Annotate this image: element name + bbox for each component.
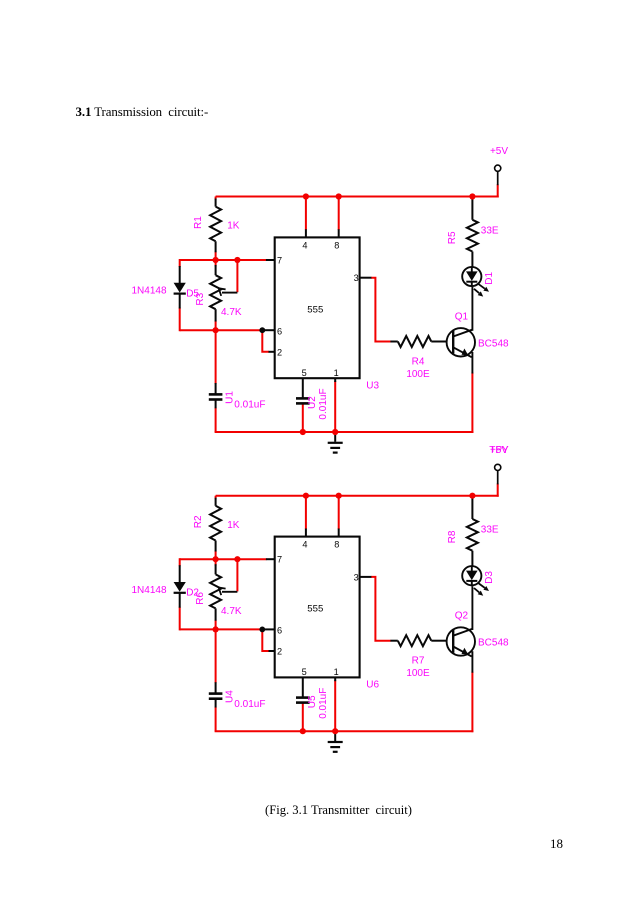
svg-text:TPY: TPY xyxy=(489,445,509,456)
svg-text:6: 6 xyxy=(277,626,282,636)
svg-text:U5: U5 xyxy=(307,695,318,708)
svg-text:U3: U3 xyxy=(366,381,379,392)
svg-text:4.7K: 4.7K xyxy=(221,307,242,318)
svg-text:R2: R2 xyxy=(193,515,204,528)
svg-text:4.7K: 4.7K xyxy=(221,606,242,617)
svg-text:Q2: Q2 xyxy=(455,611,469,622)
svg-text:D1: D1 xyxy=(484,271,495,284)
svg-text:33E: 33E xyxy=(481,225,499,236)
svg-text:2: 2 xyxy=(277,347,282,357)
svg-text:D3: D3 xyxy=(484,571,495,584)
svg-text:8: 8 xyxy=(334,240,339,250)
svg-text:+5V: +5V xyxy=(490,146,508,157)
svg-text:2: 2 xyxy=(277,647,282,657)
svg-text:4: 4 xyxy=(302,240,307,250)
svg-text:555: 555 xyxy=(307,604,323,615)
svg-text:1K: 1K xyxy=(227,520,240,531)
svg-text:1: 1 xyxy=(334,667,339,677)
svg-text:8: 8 xyxy=(334,540,339,550)
svg-text:R5: R5 xyxy=(447,231,458,244)
svg-text:4: 4 xyxy=(302,540,307,550)
svg-text:R3: R3 xyxy=(195,292,206,305)
svg-text:5: 5 xyxy=(302,368,307,378)
svg-text:R1: R1 xyxy=(193,216,204,229)
svg-text:7: 7 xyxy=(277,255,282,265)
svg-text:7: 7 xyxy=(277,555,282,565)
svg-text:U6: U6 xyxy=(366,680,379,691)
svg-text:3: 3 xyxy=(354,273,359,283)
svg-text:R8: R8 xyxy=(447,530,458,543)
svg-text:1: 1 xyxy=(334,368,339,378)
svg-text:1N4148: 1N4148 xyxy=(132,585,167,596)
svg-text:0.01uF: 0.01uF xyxy=(234,400,265,411)
svg-text:R6: R6 xyxy=(195,592,206,605)
svg-text:33E: 33E xyxy=(481,525,499,536)
svg-text:1K: 1K xyxy=(227,221,240,232)
svg-text:U2: U2 xyxy=(307,396,318,409)
svg-text:BC548: BC548 xyxy=(478,638,509,649)
svg-text:Q1: Q1 xyxy=(455,311,469,322)
svg-text:1N4148: 1N4148 xyxy=(132,286,167,297)
svg-text:R4: R4 xyxy=(412,356,425,367)
svg-text:BC548: BC548 xyxy=(478,338,509,349)
svg-text:100E: 100E xyxy=(406,668,430,679)
svg-text:555: 555 xyxy=(307,304,323,315)
svg-text:6: 6 xyxy=(277,326,282,336)
svg-text:0.01uF: 0.01uF xyxy=(318,688,329,719)
svg-text:5: 5 xyxy=(302,667,307,677)
svg-text:0.01uF: 0.01uF xyxy=(234,699,265,710)
svg-text:R7: R7 xyxy=(412,656,425,667)
svg-text:0.01uF: 0.01uF xyxy=(318,388,329,419)
svg-text:100E: 100E xyxy=(406,369,430,380)
svg-text:3: 3 xyxy=(354,572,359,582)
